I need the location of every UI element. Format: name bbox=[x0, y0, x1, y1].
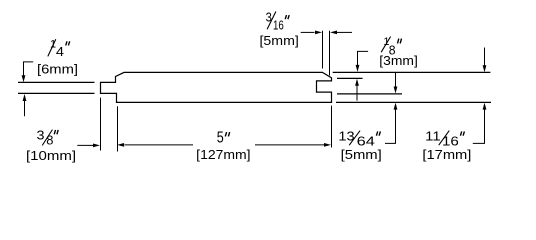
svg-text:3: 3 bbox=[266, 9, 272, 24]
svg-text:[6mm]: [6mm] bbox=[37, 62, 78, 77]
svg-text:13: 13 bbox=[338, 129, 354, 144]
svg-text:[5mm]: [5mm] bbox=[341, 147, 382, 162]
svg-text:4: 4 bbox=[56, 44, 64, 59]
svg-text:5: 5 bbox=[217, 129, 224, 146]
svg-text:[5mm]: [5mm] bbox=[260, 33, 299, 48]
svg-text:64: 64 bbox=[357, 133, 375, 148]
svg-text:16: 16 bbox=[442, 133, 459, 148]
svg-text:[3mm]: [3mm] bbox=[379, 53, 418, 68]
svg-text:3: 3 bbox=[37, 127, 45, 142]
svg-text:11: 11 bbox=[425, 129, 440, 144]
svg-text:[17mm]: [17mm] bbox=[422, 147, 471, 162]
svg-text:16: 16 bbox=[273, 17, 284, 32]
svg-text:[10mm]: [10mm] bbox=[26, 148, 76, 163]
svg-text:8: 8 bbox=[46, 132, 53, 147]
svg-text:[127mm]: [127mm] bbox=[196, 147, 250, 162]
